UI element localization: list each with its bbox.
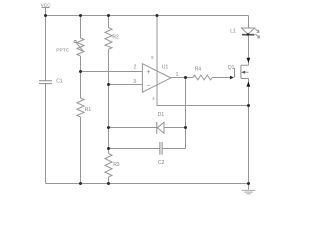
svg-text:R4: R4 bbox=[195, 67, 202, 73]
wire R2 vertical down bbox=[108, 49, 110, 153]
svg-text:4: 4 bbox=[152, 96, 155, 101]
svg-text:R1: R1 bbox=[85, 107, 92, 113]
left vertical wire bbox=[45, 16, 47, 184]
svg-text:C2: C2 bbox=[158, 160, 165, 166]
VCC power symbol bbox=[41, 3, 52, 16]
resistor R2 bbox=[105, 16, 119, 50]
svg-text:PPTC: PPTC bbox=[56, 47, 70, 53]
op-amp U1 bbox=[133, 55, 178, 101]
svg-text:R2: R2 bbox=[112, 34, 119, 40]
svg-text:+: + bbox=[146, 69, 150, 76]
node pin2 wire bbox=[81, 71, 143, 73]
output wire pin1 bbox=[171, 77, 193, 79]
svg-text:L1: L1 bbox=[230, 29, 236, 35]
resistor R4 bbox=[193, 67, 230, 80]
resistor R3 bbox=[105, 154, 120, 184]
svg-text:2: 2 bbox=[134, 65, 137, 71]
bottom rail wire bbox=[46, 183, 249, 185]
LED L1 bbox=[230, 16, 259, 59]
diode D1 bbox=[109, 112, 186, 133]
ground bbox=[242, 184, 256, 194]
op-amp power wire bbox=[157, 16, 249, 106]
svg-text:C1: C1 bbox=[56, 78, 63, 84]
top rail wire bbox=[46, 15, 249, 17]
svg-text:−: − bbox=[147, 83, 151, 90]
svg-text:R3: R3 bbox=[113, 162, 120, 168]
wire feedback vertical bbox=[185, 78, 187, 149]
capacitor C1 bbox=[39, 78, 63, 84]
resistor PPTC bbox=[56, 16, 84, 72]
svg-text:Q1: Q1 bbox=[228, 65, 235, 71]
svg-text:D1: D1 bbox=[158, 112, 165, 118]
resistor R1 bbox=[77, 72, 91, 184]
capacitor C2 bbox=[109, 142, 186, 166]
wire right vertical bbox=[248, 106, 250, 184]
svg-text:U1: U1 bbox=[162, 65, 169, 71]
transistor Q1 bbox=[228, 58, 251, 106]
svg-text:8: 8 bbox=[151, 55, 154, 60]
svg-text:3: 3 bbox=[133, 79, 136, 85]
node pin3 wire bbox=[109, 84, 143, 86]
